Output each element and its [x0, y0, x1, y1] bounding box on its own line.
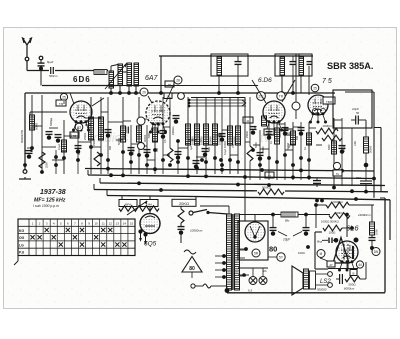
svg-text:5000μμ: 5000μμ — [50, 117, 53, 126]
svg-text:6.D6: 6.D6 — [258, 77, 272, 84]
svg-text:1000: 1000 — [375, 229, 379, 235]
svg-text:100Ω: 100Ω — [298, 251, 305, 255]
svg-text:13: 13 — [116, 222, 120, 226]
svg-text:0,5μF: 0,5μF — [343, 145, 346, 152]
svg-text:500c: 500c — [208, 146, 211, 152]
svg-text:11: 11 — [102, 222, 105, 226]
svg-text:50: 50 — [356, 111, 360, 115]
svg-text:500KΩ: 500KΩ — [333, 200, 343, 204]
svg-text:50000: 50000 — [117, 137, 121, 145]
svg-text:2A: 2A — [263, 269, 267, 273]
svg-text:500000: 500000 — [317, 288, 327, 292]
svg-text:47: 47 — [329, 263, 333, 267]
svg-text:20000: 20000 — [33, 123, 36, 130]
svg-text:500: 500 — [296, 135, 299, 140]
svg-text:LG: LG — [19, 243, 24, 247]
svg-text:5000: 5000 — [328, 144, 331, 150]
svg-text:6,3: 6,3 — [248, 289, 253, 293]
svg-text:10000: 10000 — [223, 140, 227, 148]
svg-text:1μF: 1μF — [190, 145, 193, 150]
svg-text:TBR: TBR — [326, 100, 333, 104]
svg-text:25000: 25000 — [93, 139, 96, 146]
svg-text:14: 14 — [123, 222, 127, 226]
svg-text:B: B — [353, 271, 355, 275]
svg-text:1M: 1M — [232, 145, 235, 148]
svg-text:10000: 10000 — [124, 133, 127, 140]
svg-text:80: 80 — [189, 266, 195, 272]
svg-text:LS2: LS2 — [320, 279, 331, 285]
svg-text:5000: 5000 — [262, 146, 265, 152]
svg-text:2000cm: 2000cm — [172, 126, 175, 135]
svg-text:80: 80 — [269, 245, 277, 254]
svg-text:50000: 50000 — [286, 142, 290, 150]
svg-text:20KΩ: 20KΩ — [179, 201, 189, 206]
svg-text:5R: 5R — [254, 251, 259, 255]
svg-text:7 5: 7 5 — [322, 78, 332, 85]
svg-text:2500: 2500 — [45, 162, 49, 168]
svg-text:25: 25 — [62, 95, 66, 99]
svg-text:2400Ωcm: 2400Ωcm — [357, 213, 371, 217]
svg-text:MFA: MFA — [125, 202, 131, 206]
svg-text:5000: 5000 — [254, 142, 258, 148]
svg-text:500: 500 — [109, 145, 112, 150]
svg-text:100Ω: 100Ω — [329, 231, 336, 235]
svg-text:50KΩ: 50KΩ — [336, 211, 344, 215]
svg-text:I suiv 1000 p.p.m: I suiv 1000 p.p.m — [33, 204, 59, 208]
svg-text:6Q5: 6Q5 — [144, 241, 157, 248]
svg-text:100KΩ: 100KΩ — [322, 124, 332, 128]
svg-text:12: 12 — [109, 222, 113, 226]
svg-text:TR: TR — [279, 94, 284, 98]
svg-text:0,1μF: 0,1μF — [58, 143, 61, 150]
svg-text:AVC: AVC — [70, 133, 73, 138]
svg-text:1000Ω 500KΩ: 1000Ω 500KΩ — [321, 220, 339, 224]
svg-text:30000: 30000 — [143, 134, 147, 142]
svg-text:100c: 100c — [354, 140, 357, 146]
svg-text:100: 100 — [254, 125, 257, 130]
svg-text:500cm: 500cm — [49, 74, 58, 78]
svg-text:3R: 3R — [168, 83, 172, 87]
svg-text:T.B: T.B — [59, 102, 63, 106]
svg-text:44: 44 — [358, 263, 362, 267]
svg-text:0,1μF: 0,1μF — [132, 148, 135, 155]
svg-text:41: 41 — [247, 119, 250, 123]
svg-text:100000: 100000 — [209, 136, 213, 145]
svg-text:OG: OG — [19, 236, 25, 240]
svg-text:50000: 50000 — [369, 145, 373, 153]
svg-text:6L6: 6L6 — [346, 224, 359, 233]
svg-text:10μF: 10μF — [283, 238, 291, 242]
svg-text:KG: KG — [19, 229, 24, 233]
svg-text:28: 28 — [176, 78, 180, 82]
svg-text:25000: 25000 — [83, 132, 87, 140]
svg-text:50000: 50000 — [279, 131, 282, 138]
svg-text:10000cm: 10000cm — [190, 229, 203, 233]
svg-text:0,1μF: 0,1μF — [224, 148, 227, 155]
svg-text:25000: 25000 — [246, 131, 249, 138]
svg-text:25: 25 — [313, 86, 317, 90]
svg-text:15: 15 — [130, 222, 134, 226]
svg-text:500KΩ: 500KΩ — [262, 186, 272, 190]
svg-text:5000: 5000 — [148, 132, 151, 138]
svg-text:2μF: 2μF — [102, 128, 105, 133]
svg-text:M: M — [320, 252, 323, 256]
svg-text:6000cm: 6000cm — [344, 287, 355, 291]
svg-text:DN: DN — [374, 250, 379, 254]
svg-text:SBR 385A.: SBR 385A. — [327, 61, 373, 71]
svg-text:29: 29 — [142, 90, 146, 94]
svg-text:6D6: 6D6 — [73, 75, 91, 84]
svg-text:P.U: P.U — [19, 251, 25, 255]
svg-text:6μμF: 6μμF — [47, 60, 54, 64]
svg-text:MF= 125 kHz: MF= 125 kHz — [34, 198, 66, 204]
svg-text:1937-38: 1937-38 — [40, 189, 66, 196]
svg-text:10: 10 — [94, 222, 98, 226]
svg-text:6A7: 6A7 — [145, 75, 159, 82]
svg-text:50000ΩTR: 50000ΩTR — [20, 130, 24, 143]
